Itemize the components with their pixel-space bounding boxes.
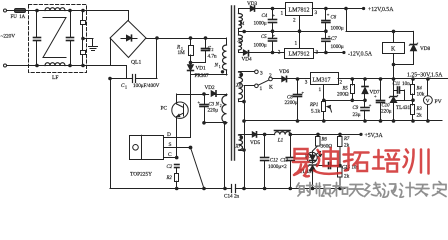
bridge rectifier QL1 [110,21,146,58]
svg-text:C2: C2 [167,165,173,170]
wire +12V branch to relay [346,9,348,32]
fuse FU 1A [15,9,26,13]
IC TOP225Y [130,136,164,160]
resistor R2 [175,174,179,182]
svg-text:VD3: VD3 [247,1,257,7]
svg-text:~220V: ~220V [1,33,16,39]
shunt regulator TL431 (adj section) [393,79,395,97]
winding X4 [238,9,240,14]
svg-text:LM7912: LM7912 [289,52,310,58]
wire bridge left down [110,38,112,66]
capacitor CY1 [82,11,84,21]
resistor R6 360ohm [317,134,319,136]
wire N2 bottom [204,122,227,124]
svg-text:1: 1 [295,40,298,46]
optocoupler phototransistor PC [172,102,188,118]
svg-text:VD6: VD6 [279,69,289,75]
capacitor C6 1000u [325,9,327,20]
svg-text:R7: R7 [343,137,350,142]
capacitor C12 1000u [264,134,266,157]
shunt regulator TL431 (5V section) [309,164,315,166]
capacitor CX2 [70,11,72,38]
svg-text:1M: 1M [178,50,186,56]
winding X7 [239,135,243,150]
svg-text:+5V,3A: +5V,3A [365,133,384,139]
svg-text:TL431: TL431 [396,105,411,111]
output rail 1.25-30V [338,78,448,80]
wire 7812 gnd pin [299,16,301,32]
svg-text:1: 1 [219,65,221,69]
svg-text:C7: C7 [331,37,337,42]
inductor L1 [275,132,291,135]
svg-text:+12V,0.5A: +12V,0.5A [368,7,394,13]
svg-text:LM317: LM317 [313,78,331,84]
svg-text:V: V [426,99,430,105]
capacitor C13 1000u [290,134,292,157]
wire LM317 adj pin [323,85,325,100]
-12V rail [314,52,342,54]
wire TL431 ref [397,100,414,102]
svg-text:+: + [273,13,276,18]
svg-text:2k: 2k [417,113,423,119]
capacitor C5 1000u [272,31,274,38]
resistor R1 1M [190,38,192,46]
svg-text:X6: X6 [235,84,242,89]
svg-text:+: + [327,12,330,17]
svg-text:C4: C4 [262,14,268,19]
diode VD6 [272,78,282,80]
svg-text:X5: X5 [237,39,244,44]
regulator LM317 [311,73,339,85]
wire S pin [164,147,191,149]
svg-text:2: 2 [340,80,343,86]
node X7 polarity dot [240,136,242,138]
capacitor C2 4.7n [205,38,207,48]
svg-text:1: 1 [125,85,127,90]
svg-text:3: 3 [316,50,319,56]
svg-text:TOP225Y: TOP225Y [130,172,152,178]
svg-text:1000μ: 1000μ [254,21,267,27]
svg-text:1000μ: 1000μ [254,43,267,49]
voltmeter PV [427,79,429,96]
svg-text:1000μ: 1000μ [331,44,344,50]
svg-text:PV: PV [435,99,442,105]
+12V rail [312,8,362,10]
capacitor C9 23u [364,100,366,107]
svg-text:LM7812: LM7812 [289,8,310,14]
terminal +12V [362,7,365,10]
svg-text:S: S [169,142,172,148]
svg-text:+: + [198,100,201,105]
adj rail [324,100,365,102]
terminal +5V [359,133,362,136]
watermark red text [293,148,429,176]
secondary ground rail [244,188,345,190]
svg-text:L1: L1 [277,138,284,144]
regulator LM7912 [285,49,314,59]
svg-text:2: 2 [293,18,296,24]
svg-text:VD2: VD2 [205,85,215,91]
capacitor C15 10n [317,165,329,167]
svg-text:K: K [269,85,273,91]
svg-text:100μF/400V: 100μF/400V [133,83,160,89]
svg-text:10k: 10k [417,92,425,98]
terminal -12V [342,51,345,54]
svg-text:1.25~30V,1.5A: 1.25~30V,1.5A [407,73,443,79]
svg-text:2k: 2k [344,174,350,180]
svg-text:C9: C9 [353,106,359,111]
wire VD1 node down to D pin [190,75,192,137]
resistor R8 [339,166,341,168]
resistor R7 [339,134,341,136]
svg-text:C6: C6 [331,15,337,20]
capacitor C11 10n [394,90,398,92]
switch K contacts [255,70,259,74]
svg-text:VD5: VD5 [250,140,260,146]
svg-text:C14 2n: C14 2n [224,194,240,200]
capacitor C1 100uF/400V [110,78,132,80]
watermark gray text [297,182,447,198]
svg-text:FU 1A: FU 1A [11,15,26,20]
relay coil K [383,43,405,54]
capacitor C14 2n (Y-cap in ground rail) [231,185,233,193]
regulator LM7812 [286,3,313,16]
wire X6 top to contact 3 [239,71,255,73]
common rail [244,120,442,122]
winding N2 [226,94,228,96]
svg-text:+: + [302,90,305,95]
svg-text:1: 1 [260,86,263,92]
svg-text:N: N [215,102,220,108]
primary ground bottom rail [110,188,231,190]
winding X6 [238,71,240,73]
wire top AC rail [26,10,128,12]
capacitor C4 1000u [272,9,274,20]
wire contact1 to common bus [244,85,255,87]
svg-text:2: 2 [278,50,281,56]
diode VD1 FR307 [190,63,192,65]
node X6 polarity dot [240,74,242,76]
svg-text:2200μ: 2200μ [285,100,298,106]
svg-text:220μ: 220μ [208,108,219,114]
svg-text:2: 2 [269,73,272,79]
svg-text:QL1: QL1 [131,60,141,66]
junction [36,9,39,12]
svg-text:C11: C11 [393,82,401,87]
capacitor C3 220u [204,94,206,104]
choke winding bottom [45,63,65,66]
wire [7,10,14,12]
svg-text:3: 3 [315,10,318,16]
DC+ rail [157,38,226,40]
winding X5 [239,35,243,50]
diode VD8 [413,31,415,44]
svg-text:+: + [369,103,372,108]
diode VD2 [211,91,216,96]
winding N1 [226,38,228,45]
svg-text:R2: R2 [166,176,173,181]
svg-text:C: C [168,152,172,158]
ground [83,38,93,40]
choke winding top [45,8,65,11]
wire bridge top [128,11,130,21]
svg-text:3: 3 [260,70,263,76]
optocoupler LED PC [307,152,317,162]
diode VD4 [239,52,243,54]
capacitor CY2 [81,51,86,55]
capacitor C2 (control pin) [175,164,179,166]
wire X7 top [239,134,252,136]
svg-text:D: D [167,132,171,138]
svg-text:2: 2 [212,48,214,52]
svg-text:LF: LF [52,75,59,81]
svg-text:VD1: VD1 [196,66,206,72]
svg-text:VD4: VD4 [242,56,252,62]
svg-text:5.1k: 5.1k [311,109,320,115]
capacitor CX1 [36,11,38,38]
wire N1 bottom to VD1 [191,74,228,76]
resistor R3 2k [412,100,414,105]
wire secondary common bus [244,86,246,189]
diode VD5 [252,132,256,137]
svg-text:220μ: 220μ [381,109,392,115]
wire N2 node down to ground rail [224,123,226,189]
wire bottom AC rail [7,65,127,67]
wire 7912 gnd pin [299,31,301,48]
svg-text:1: 1 [281,11,284,17]
choke core Z symbol [43,18,66,58]
node polarity dot N1 [221,71,223,73]
wire bias line [177,94,209,96]
wire bridge right [146,38,157,40]
wire center tap [239,31,326,33]
svg-text:PC: PC [161,106,168,112]
svg-text:FR307: FR307 [195,73,210,79]
svg-text:C5: C5 [261,35,267,40]
wire C pin [164,157,177,159]
wire S diagonal to ground rail [191,148,205,189]
diode VD7 [364,79,366,87]
potentiometer RP1 5.1k [322,102,326,112]
svg-text:4.7n: 4.7n [208,54,217,60]
resistor R5 200ohm [352,79,354,85]
svg-text:R6: R6 [321,138,328,143]
svg-text:+: + [374,94,377,99]
line filter LF dashed box [29,5,87,73]
capacitor C7 1000u [325,31,327,39]
input terminal N [4,64,7,67]
svg-text:1: 1 [319,87,322,93]
capacitor C8 2200u [297,79,299,94]
svg-text:1000μ×2: 1000μ×2 [268,164,287,170]
svg-text:1000μ: 1000μ [331,26,344,32]
input terminal L [4,9,7,12]
svg-text:RP1: RP1 [309,103,318,108]
svg-text:X4: X4 [238,22,245,27]
svg-text:23μ: 23μ [353,112,361,118]
transformer core [231,6,233,160]
resistor R4 10k [412,79,414,85]
svg-text:VD8: VD8 [420,46,430,52]
diode VD3 [239,8,250,10]
capacitor C10 220u [380,79,382,100]
svg-text:-12V,0.5A: -12V,0.5A [348,51,373,57]
svg-text:C12 C13: C12 C13 [270,158,289,163]
wire D pin jog [164,137,191,139]
svg-text:N: N [214,63,219,69]
svg-text:X7: X7 [235,145,242,150]
svg-text:2: 2 [220,104,222,108]
svg-text:10n: 10n [402,81,410,87]
wire X7 bottom [239,150,244,152]
svg-text:200Ω: 200Ω [337,92,349,98]
svg-text:+: + [273,33,276,38]
svg-text:R3: R3 [416,107,423,112]
svg-text:3: 3 [305,80,308,86]
